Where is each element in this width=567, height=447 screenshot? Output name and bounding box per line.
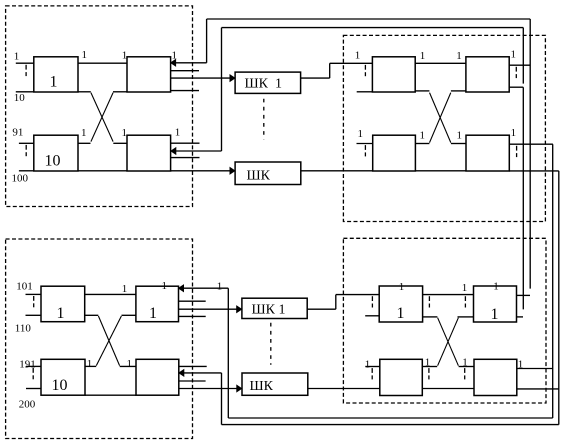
wire: C1 out2 stub <box>415 90 429 92</box>
block A1 (stage-1 box 1) <box>34 57 78 92</box>
block E1 (stage-1 box 1, bottom) <box>41 286 85 322</box>
wire: input line 100 into block A2 <box>19 170 34 172</box>
wire: input line 1 into block A1 <box>16 62 34 64</box>
wire: C2 in1 stub <box>357 143 373 145</box>
wire: top feed line 2 horizontal <box>222 27 524 29</box>
wire: vertical return x560 <box>558 171 560 425</box>
dashed frame: concentrator group C (bottom-left) <box>6 239 193 439</box>
svg-text:1: 1 <box>456 50 462 62</box>
wire: G1 in2 stub <box>365 315 379 317</box>
block F1 (stage-2 box 1, bottom) <box>136 286 179 322</box>
wire: crossover diagonal E2-F1 <box>96 316 121 366</box>
wire: feedback into B1 with arrow <box>175 62 206 64</box>
svg-text:200: 200 <box>19 398 36 410</box>
tick marks below D2 out1 <box>516 146 518 151</box>
wire: G2 out2 to H2 in2 (link) <box>422 388 474 390</box>
tick marks below G2 out stub <box>428 368 430 373</box>
tick marks below C1 in1 <box>364 65 366 70</box>
wire: B2 stub b <box>171 157 200 159</box>
svg-text:1: 1 <box>491 306 499 323</box>
wire: crossover diagonal A2-B1 <box>91 93 113 142</box>
wire: H2 out2 line <box>517 388 559 390</box>
wire: input line 110 into E1 <box>26 314 42 316</box>
wire: riser to C1 in1 <box>330 62 373 64</box>
svg-text:1: 1 <box>420 50 426 62</box>
wire: crossover diagonal E1-F2 <box>98 316 119 366</box>
wire: stub into B1 in2 <box>113 91 127 93</box>
wire: bottom return line 1 riser to F1 <box>227 288 229 418</box>
wire: B1 stub b <box>171 90 199 92</box>
wire: crossover diagonal G1-H2 <box>438 318 459 366</box>
wire: crossover diagonal C2-D1 <box>430 93 451 143</box>
svg-text:1: 1 <box>122 127 128 139</box>
wire: B1 to ShK1 line <box>171 77 231 79</box>
svg-text:10: 10 <box>45 152 61 169</box>
svg-text:1: 1 <box>50 74 58 91</box>
tick marks below C2 in1 <box>364 145 366 150</box>
svg-text:91: 91 <box>12 127 23 139</box>
wire: top feed line 2 vertical drop to B2 <box>221 28 223 151</box>
svg-text:101: 101 <box>16 280 33 292</box>
wire: crossover diagonal A1-B2 <box>91 93 113 142</box>
dashed frame: switch group B (top-right) <box>343 35 545 221</box>
wire: stub into D2 in1 <box>451 143 466 145</box>
wire: feedback into B2 with arrow <box>175 150 221 152</box>
wire: C2 out2 to D2 in2 (bottom link) <box>415 170 466 172</box>
svg-text:1: 1 <box>493 281 499 293</box>
tick marks below G1-H1 link a <box>428 296 430 301</box>
svg-text:1: 1 <box>87 358 93 370</box>
wire: ShK to G2 line <box>308 388 380 390</box>
wire: stub into D1 in2 <box>451 90 466 92</box>
wire: B2 to ShK line <box>171 170 231 172</box>
wire: A2 out2 to B2 in2 (bottom link) <box>78 170 127 172</box>
wire: vertical bus x523 lower <box>522 87 524 309</box>
block ShK (bottom) <box>242 373 308 395</box>
wire: A2 out1 stub <box>78 142 91 144</box>
wire: riser up (bottom) <box>335 295 337 310</box>
svg-text:ШК 1: ШК 1 <box>252 302 286 317</box>
wire: stub into F2 in1 <box>120 365 136 367</box>
wire: stub into H2 in1 <box>459 366 474 368</box>
wire: D2 out1 stub <box>509 143 553 145</box>
wire: A1 out1 to B1 in1 <box>78 62 127 64</box>
dashed frame: concentrator group A (top-left) <box>6 6 193 207</box>
dashed ellipsis between ShK boxes (top) <box>263 99 265 140</box>
tick marks below G2 in1 <box>371 368 373 373</box>
wire: input line 101 into E1 <box>26 293 42 295</box>
tick marks below H2 in stub <box>464 368 466 373</box>
svg-text:1: 1 <box>14 50 19 62</box>
svg-text:10: 10 <box>52 377 68 394</box>
svg-text:1: 1 <box>397 305 405 322</box>
wire: E2 out2 to F2 in2 (bottom link) <box>85 394 136 396</box>
wire: feedback into F1 with arrow <box>183 287 228 289</box>
svg-text:100: 100 <box>12 172 29 184</box>
block F2 (stage-2 box, bottom row) <box>136 359 179 395</box>
block H1 (stage-4 box, bottom-right top row) <box>474 286 517 322</box>
wire: bottom return line 2 riser to F2 <box>221 373 223 425</box>
block ShK 1 (bottom cord circuit) <box>242 298 307 318</box>
wire: A1 out2 stub <box>78 91 91 93</box>
block D2 (stage-4 box, bottom row) <box>466 135 509 171</box>
svg-text:ШК: ШК <box>250 379 274 394</box>
tick marks below input line 1 <box>25 65 27 70</box>
block ShK 1 (top cord circuit) <box>235 72 301 93</box>
svg-text:1: 1 <box>365 358 371 370</box>
wire: G2 in1 stub <box>365 366 380 368</box>
svg-text:1: 1 <box>127 358 133 370</box>
wire: C1 in2 stub <box>357 91 373 93</box>
wire: B1 stub a <box>171 70 199 72</box>
svg-text:1: 1 <box>175 127 181 139</box>
wire: stub into F1 in2 <box>122 314 136 316</box>
block D1 (stage-4 box, top row) <box>466 57 509 92</box>
block G2 (stage-3 box, bottom-right bottom row) <box>380 359 423 395</box>
wire: C1 out1 to D1 in1 <box>415 62 466 64</box>
wire: input line 10 into block A1 <box>16 91 34 93</box>
wire: D1 out2 stub <box>509 86 523 88</box>
block C2 (stage-3 box, bottom row) <box>373 135 416 171</box>
svg-text:1: 1 <box>172 49 178 61</box>
tick marks below input 191 <box>32 368 34 373</box>
wire: G1 out2 stub <box>423 316 438 318</box>
svg-text:1: 1 <box>122 283 128 295</box>
svg-text:1: 1 <box>82 49 88 61</box>
svg-text:10: 10 <box>14 92 25 104</box>
wire: G1 out1 to H1 in1 <box>423 294 474 296</box>
svg-text:1: 1 <box>511 49 517 61</box>
svg-text:1: 1 <box>217 280 223 292</box>
tick marks below input 101 <box>33 296 35 301</box>
wire: ShK to C2 line <box>301 170 373 172</box>
wire: bottom return line 2 <box>222 424 559 426</box>
wire: H1 out2 stub <box>517 316 524 318</box>
tick marks below input line 91 <box>25 145 27 150</box>
wire: crossover diagonal G2-H1 <box>438 318 459 366</box>
wire: E1 out2 stub <box>85 314 99 316</box>
wire: D2 out2 line to right <box>509 170 559 172</box>
svg-text:1: 1 <box>81 127 87 139</box>
wire: H1 out1 stub <box>517 294 531 296</box>
wire: vertical bus x530 <box>529 19 531 289</box>
svg-text:ШК: ШК <box>247 168 271 183</box>
svg-text:1: 1 <box>420 129 426 141</box>
wire: riser up <box>329 63 331 78</box>
wire: input line 191 into E2 <box>26 365 41 367</box>
block B1 (stage-2 box, top row) <box>127 57 171 92</box>
block E2 (stage-1 box 10, bottom) <box>41 359 85 395</box>
tick marks below G1 in1 <box>371 296 373 301</box>
wire: feedback into F2 with arrow <box>184 372 222 374</box>
wire: F1 stub b <box>179 315 206 317</box>
svg-text:1: 1 <box>149 305 157 322</box>
svg-text:ШК 1: ШК 1 <box>245 76 282 91</box>
tick marks below G1-H1 link b <box>464 296 466 301</box>
svg-text:1: 1 <box>162 280 168 292</box>
wire: stub into B2 in1 <box>113 142 127 144</box>
wire: G2 out1 stub <box>422 366 437 368</box>
wire: F2 stub a <box>179 365 207 367</box>
block A2 (stage-1 box 10) <box>34 135 78 171</box>
wire: ShK1 to riser (bottom) <box>307 308 336 310</box>
wire: E1 out1 to F1 in1 <box>85 293 136 295</box>
dashed frame: switch group D (bottom-right) <box>343 238 546 403</box>
wire: bottom return line 1 <box>228 417 552 419</box>
wire: F1 to ShK1 line <box>179 308 238 310</box>
svg-text:1: 1 <box>355 49 361 61</box>
block G1 (stage-3 box, bottom-right top row) <box>379 286 422 322</box>
wire: input line 91 into block A2 <box>19 142 34 144</box>
tick marks below D1 out1 <box>515 67 517 72</box>
wire: F1 stub a <box>179 300 206 302</box>
wire: F2 stub b <box>179 380 206 382</box>
wire: F2 to ShK line <box>179 388 238 390</box>
wire: ShK1 to riser <box>301 77 330 79</box>
svg-text:1: 1 <box>462 282 468 294</box>
wire: D1 out1 stub <box>509 64 530 66</box>
wire: H2 out1 stub <box>517 368 553 370</box>
wire: vertical bus x523 upper <box>522 28 524 84</box>
wire: input line 200 into E2 <box>26 388 41 390</box>
wire: B2 stub a <box>171 142 200 144</box>
block C1 (stage-3 box, top row) <box>372 57 415 92</box>
wire: C2 out1 stub <box>415 143 429 145</box>
wire: vertical return x553 <box>552 144 554 418</box>
block B2 (stage-2 box, bottom row) <box>127 135 171 171</box>
wire: riser to G1 in1 <box>336 294 379 296</box>
svg-text:1: 1 <box>457 129 463 141</box>
svg-text:110: 110 <box>15 322 32 334</box>
svg-text:1: 1 <box>57 305 65 322</box>
wire: top feed line 1 vertical drop to B1 <box>206 19 208 63</box>
svg-text:1: 1 <box>511 127 516 139</box>
wire: crossover diagonal C1-D2 <box>430 93 451 143</box>
dashed ellipsis between ShK boxes (bottom) <box>270 323 272 365</box>
block ShK (top) <box>235 162 301 185</box>
wire: E2 out1 stub <box>85 365 96 367</box>
block H2 (stage-4 box, bottom-right bottom row) <box>474 359 517 395</box>
wire: stub into H1 in2 <box>458 316 474 318</box>
svg-text:1: 1 <box>358 128 364 140</box>
wire: top feed line 1 horizontal <box>207 18 531 20</box>
svg-text:1: 1 <box>399 281 405 293</box>
